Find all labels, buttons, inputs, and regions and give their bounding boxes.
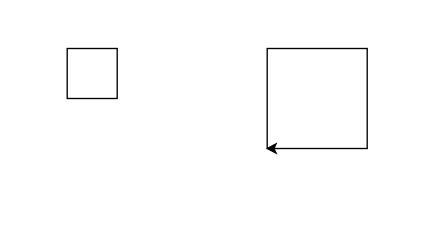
arrowhead: [267, 143, 277, 153]
small square: [67, 49, 117, 99]
large square: [267, 49, 367, 149]
